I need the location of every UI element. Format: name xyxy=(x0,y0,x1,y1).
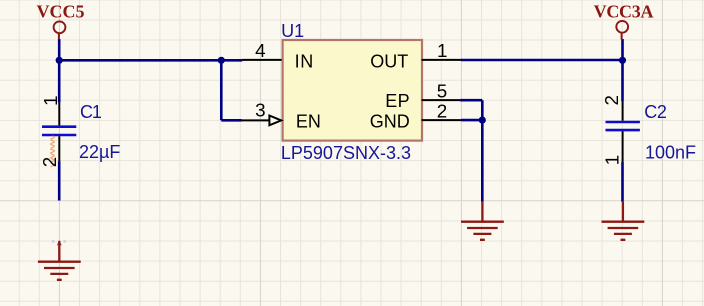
svg-text:5: 5 xyxy=(437,81,447,102)
svg-text:VCC5: VCC5 xyxy=(37,2,85,22)
svg-text:GND: GND xyxy=(370,112,410,132)
svg-text:OUT: OUT xyxy=(370,51,408,71)
svg-text:EN: EN xyxy=(296,111,321,131)
svg-text:EP: EP xyxy=(385,91,410,111)
svg-text:1: 1 xyxy=(602,155,623,165)
svg-text:1: 1 xyxy=(437,40,447,61)
svg-text:VCC3A: VCC3A xyxy=(594,2,654,22)
svg-text:LP5907SNX-3.3: LP5907SNX-3.3 xyxy=(281,143,411,163)
svg-text:C1: C1 xyxy=(80,102,102,122)
svg-text:U1: U1 xyxy=(281,21,304,41)
svg-text:4: 4 xyxy=(255,40,265,61)
svg-text:1: 1 xyxy=(40,95,61,105)
svg-text:22µF: 22µF xyxy=(79,142,120,162)
svg-text:3: 3 xyxy=(255,100,265,121)
svg-text:2: 2 xyxy=(601,95,622,105)
svg-text:C2: C2 xyxy=(644,102,667,122)
svg-text:2: 2 xyxy=(437,100,447,121)
svg-text:2: 2 xyxy=(39,157,60,167)
svg-text:100nF: 100nF xyxy=(645,143,696,163)
svg-text:IN: IN xyxy=(295,51,314,71)
